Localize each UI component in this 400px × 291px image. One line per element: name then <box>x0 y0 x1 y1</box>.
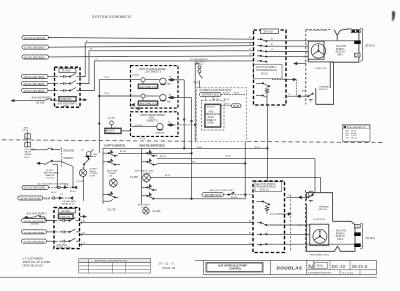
wire: pump2 control feed with contact <box>25 215 55 220</box>
label: AUX HYD PUMP CONT <box>210 189 234 192</box>
svg-text:29-21-0: 29-21-0 <box>352 264 368 269</box>
engrs toggle fourth <box>142 193 246 200</box>
svg-text:S1-25C: S1-25C <box>153 210 161 213</box>
svg-text:115 VAC GEN 3B BU: 115 VAC GEN 3B BU <box>24 56 45 59</box>
label: IF EMER AC & DC BUS CONT <box>200 89 232 92</box>
wire: switch out y157.6 <box>157 159 315 193</box>
wire: vertical x247 emer to y157 <box>244 142 246 195</box>
capt switch toggle lower <box>103 159 120 166</box>
wire: relay2 out A to motor2 <box>270 224 310 226</box>
label: S1-27B <box>108 209 116 212</box>
label: ENG'RS SWITCHES <box>140 143 165 147</box>
connector box J76 pump2 <box>354 224 360 228</box>
bus oval: 115 VAC GEN BUS pump2 phase C <box>22 239 47 244</box>
motor housing rectangle pump2 <box>310 224 329 245</box>
wire: battery to adg dashed link <box>206 97 214 101</box>
label: CKPT'S ANNUN PANEL 22-0 SHEET 2 <box>132 68 167 77</box>
svg-text:T2: T2 <box>288 94 290 96</box>
lamp: capt aux pump light <box>109 178 117 188</box>
svg-text:B2: B2 <box>90 49 92 51</box>
adg regulator inner box <box>205 104 222 128</box>
label: (29-40-0) <box>366 238 376 240</box>
bus oval: 115 VAC GEN GD BUS (row A) <box>22 185 49 189</box>
svg-text:22-0 SHEET 2: 22-0 SHEET 2 <box>145 71 162 74</box>
svg-text:B1-801: B1-801 <box>231 197 238 199</box>
svg-text:115 VAC A/C BUS 1B: 115 VAC A/C BUS 1B <box>24 37 45 40</box>
wire: phase C to motor 1 <box>270 51 308 53</box>
svg-text:REGULATOR: REGULATOR <box>206 113 220 116</box>
svg-text:THERMAL: THERMAL <box>319 206 330 209</box>
motor M0-1 circle <box>311 44 325 58</box>
label: SEE 24-25 <box>23 128 29 133</box>
svg-text:2-1: 2-1 <box>60 194 64 196</box>
ckpt annun panel 1 dashed box <box>131 66 179 109</box>
wire labels: misc tiny designators <box>83 36 305 245</box>
relay2 coil contacts <box>257 201 270 214</box>
wire: coil link <box>27 132 29 143</box>
svg-text:B1: B1 <box>249 232 251 234</box>
label box: 31-631 <box>59 68 76 72</box>
svg-text:13-78: 13-78 <box>104 77 109 79</box>
label: AUX PUMP 2 COND <box>138 204 151 209</box>
svg-text:B2-64: B2-64 <box>70 191 76 193</box>
wire: monitor output A riser <box>80 43 254 77</box>
svg-text:SHIPS 206, 227 & SUBS: SHIPS 206, 227 & SUBS <box>23 261 51 264</box>
bus oval: 115 VAC GEN BUS 2B <box>22 45 49 50</box>
wire: pump2 phase C line <box>80 243 255 246</box>
svg-text:29-21-04: 29-21-04 <box>336 52 346 54</box>
title block texts <box>308 264 368 275</box>
wire: to annun lamp row 1 <box>99 79 140 81</box>
bus oval: 115 VAC GEN BUS phase B (monitor feed) <box>22 81 49 86</box>
svg-text:96111: 96111 <box>317 266 324 268</box>
thermal switch contact pump2 <box>286 191 313 202</box>
label: B1-67 row B <box>45 198 51 200</box>
relay2 contact row C <box>257 244 270 246</box>
wire: box to panel2 <box>122 130 131 132</box>
relay contact row 1 <box>257 39 270 42</box>
label: THERMAL SWITCH (pump1) <box>319 85 330 91</box>
connector block J1 (half filled) <box>351 30 360 33</box>
title: SYSTEM SCHEMATIC <box>92 15 132 19</box>
svg-text:RELAY: RELAY <box>25 153 33 156</box>
svg-text:ON: ON <box>109 175 113 177</box>
lamp: engrs pump2 light <box>143 208 150 215</box>
label: S1-255 <box>130 176 138 179</box>
svg-text:B2-12: B2-12 <box>165 175 170 177</box>
svg-text:115 VAC GEN 3B(1B): 115 VAC GEN 3B(1B) <box>24 90 45 93</box>
svg-text:HANDLE: HANDLE <box>46 174 55 177</box>
arrow: capt switch feed left <box>86 155 97 157</box>
pump 1 enclosure outline <box>331 29 359 62</box>
engrs toggle upper <box>142 150 157 156</box>
wire: adg to 29-38 dashes <box>221 105 232 107</box>
relay2 contact row B <box>257 234 270 236</box>
wire: phase B bus to relay 29-3-10 <box>49 46 255 48</box>
svg-text:274: 274 <box>355 54 360 57</box>
svg-text:CHARGER: CHARGER <box>155 132 165 135</box>
svg-text:THERMAL: THERMAL <box>319 85 330 88</box>
svg-text:29-1, 21-0 R: 29-1, 21-0 R <box>342 273 354 275</box>
bus oval: 115 VAC AC BUS 1B <box>22 35 49 40</box>
legend box: AUX HYD PUMP 1 LOW PRESS <box>138 101 159 106</box>
svg-text:NORMAL: NORMAL <box>64 157 75 160</box>
legend box: AUX HYD PUMP 1 ON <box>138 84 158 89</box>
svg-text:29-3-10: 29-3-10 <box>264 30 274 34</box>
monitor caption: AUX HYD PUMP 1 MON <box>58 103 78 108</box>
svg-text:WIRE DIAGRAM LIST: WIRE DIAGRAM LIST <box>347 126 367 129</box>
svg-text:AT-44: AT-44 <box>225 103 231 106</box>
svg-text:B1-67: B1-67 <box>45 198 51 200</box>
label: CAPT'S SWITCH <box>104 143 125 147</box>
wire: oval B to monitor <box>48 83 58 85</box>
svg-text:S1-248: S1-248 <box>77 181 84 183</box>
svg-text:PUMP 2 MON: PUMP 2 MON <box>57 247 72 249</box>
svg-text:FUSE 15A: FUSE 15A <box>61 98 72 101</box>
wheel well boundary dashed (pump1) <box>305 30 307 105</box>
svg-text:AT-41: AT-41 <box>234 92 240 95</box>
svg-text:AUX HYD PUMP 2: AUX HYD PUMP 2 <box>27 212 48 215</box>
label: 29-21-0 / CODE 1B <box>159 261 176 270</box>
svg-text:RED: RED <box>167 84 172 86</box>
relay coil contacts lower <box>256 83 270 105</box>
monitor2 internal contacts B <box>59 229 80 234</box>
connector arrows row 3 <box>155 122 174 135</box>
solenoid circle (check valve) <box>81 150 98 168</box>
motor M0-2 circle <box>313 229 327 243</box>
engrs switch vertical <box>141 148 143 204</box>
wire: monitor output B riser <box>80 51 254 84</box>
svg-text:U.T CUSTOMERS: U.T CUSTOMERS <box>23 257 44 260</box>
wire: relay2 out B to block <box>270 233 310 235</box>
svg-text:AUX HYD PUMP CONT: AUX HYD PUMP CONT <box>210 189 234 192</box>
svg-text:A2: A2 <box>83 220 85 223</box>
release handle contact upper <box>30 148 60 150</box>
svg-text:MO-1: MO-1 <box>338 54 344 56</box>
svg-text:(2-66): (2-66) <box>208 123 214 125</box>
wire: handle down to sensing row <box>57 164 58 188</box>
wire: oval C to monitor <box>48 90 58 92</box>
transfer relay box 1 (29-3-10) dashed <box>254 30 287 105</box>
svg-text:A06: A06 <box>94 153 98 156</box>
svg-text:R2-61: R2-61 <box>262 72 269 75</box>
bus oval: 115 VAC GEN GD BUS (row B) <box>18 196 43 200</box>
svg-text:T2: T2 <box>288 195 290 197</box>
svg-text:SHEET 5: SHEET 5 <box>147 119 158 122</box>
svg-text:R2-6: R2-6 <box>25 157 31 159</box>
connector arrows row 1 <box>167 77 175 86</box>
svg-text:SWITCH: SWITCH <box>319 89 328 91</box>
label: AUX HYD PUMP 1 / B1-630 <box>32 96 53 104</box>
release handle mechanical dashed link <box>61 148 63 168</box>
svg-text:C2: C2 <box>95 59 97 61</box>
svg-text:CODE 1B: CODE 1B <box>162 266 176 270</box>
ckpt annun panel 2 dashed box <box>131 112 179 137</box>
svg-text:AUX HYD: AUX HYD <box>336 230 347 233</box>
svg-text:C1: C1 <box>249 243 251 245</box>
bus oval: BATTERY BUS <box>200 92 222 96</box>
label: 31-381 A/W RELEASE HANDLE (51-15) <box>44 170 59 180</box>
wire: dashed vertical thermal link pump1 <box>295 80 297 97</box>
relay contact row 3 <box>257 50 270 52</box>
monitor internal contacts phase A <box>60 74 81 79</box>
svg-text:115 VAC GEN 2B BU: 115 VAC GEN 2B BU <box>24 47 45 50</box>
bracket pump1 connectors <box>360 28 362 62</box>
label: AUX HYD PUMP 2 <box>27 212 48 225</box>
svg-text:BATTERY BUS: BATTERY BUS <box>205 194 222 197</box>
bus oval: 29-38 <box>232 104 242 108</box>
svg-text:31-631: 31-631 <box>62 69 71 73</box>
svg-text:1-4 MOTOR: 1-4 MOTOR <box>313 219 325 221</box>
wire: to annun lamp row 2 <box>99 95 140 97</box>
label: RELEASE / NORMAL <box>64 149 75 160</box>
legend box: AUX HYD PUMP 1+2 <box>105 128 122 134</box>
svg-text:115 VAC GEN 2B(3B): 115 VAC GEN 2B(3B) <box>24 83 45 86</box>
relay contact row 4 <box>257 55 270 57</box>
wire diagram reference table <box>343 125 371 142</box>
svg-text:MO-2: MO-2 <box>338 239 344 241</box>
label: FWD WHEEL WELL (bottom) <box>310 254 331 256</box>
wire: oval A to monitor <box>48 76 58 78</box>
connector 1-3-79 <box>108 117 116 128</box>
svg-text:ADG: ADG <box>209 110 214 113</box>
svg-text:FWD WHEEL WELL: FWD WHEEL WELL <box>310 254 331 256</box>
capt switch toggle upper <box>103 150 118 156</box>
svg-text:FUSE 15A: FUSE 15A <box>60 216 71 219</box>
label: AUX HYD PUMP 2 29-21-03 MO-2 <box>336 230 347 241</box>
drawing title box <box>206 263 263 273</box>
arrow: capt switch feed left 2 <box>37 162 44 164</box>
motor housing rectangle pump1 <box>308 41 333 62</box>
label: B1-801 <box>231 197 238 199</box>
current monitor assembly 31-631 dashed box <box>55 67 81 107</box>
rack boundary dashed (pump2) <box>290 195 292 251</box>
wire: vertical x320.6 down to pump2 enclosure <box>150 177 320 192</box>
label: S1-25C <box>153 210 161 213</box>
contact on battery bus 2 line <box>228 192 234 195</box>
label: B1-655 AT-41 <box>213 92 240 101</box>
wire: battery bus dashes <box>221 94 245 96</box>
connector diamonds panel1 bottom <box>132 104 140 110</box>
monitor internal contacts phase B <box>60 81 81 86</box>
svg-text:AUX HYD: AUX HYD <box>336 45 347 48</box>
label: AC GND SERV/GND SENSING <box>38 182 69 185</box>
note: UT CUSTOMERS <box>23 257 51 267</box>
svg-text:B1: B1 <box>249 43 251 45</box>
capt switch vertical <box>102 148 104 204</box>
arrow: relay2 aux contact out right <box>270 213 291 215</box>
wire: phase B to motor 1 <box>270 45 308 47</box>
svg-text:B1-655: B1-655 <box>223 93 230 95</box>
monitor2 inner fuse box <box>58 214 74 219</box>
svg-text:(29-40-3): (29-40-3) <box>365 45 375 47</box>
bus oval: 115 VAC GEN BUS pump2 phase B <box>22 230 47 235</box>
svg-text:SHEET 1: SHEET 1 <box>207 120 217 122</box>
current monitor assembly 31-634 dashed box <box>54 208 80 249</box>
svg-text:B2-11B: B2-11B <box>120 151 127 153</box>
label: THERMAL SWITCH (pump2) <box>319 206 330 212</box>
label: AUX PUMP 1 POWER (capt) <box>107 170 118 178</box>
annunciator row 3: lamp <box>131 123 164 130</box>
engrs toggle third <box>142 184 157 190</box>
bus oval: 115 VAC GEN BUS phase C (monitor feed) <box>22 88 49 93</box>
relay2 contact row A <box>257 222 270 226</box>
svg-text:1-3-79: 1-3-79 <box>108 117 116 120</box>
wire: phase A bus to relay 29-3-10 <box>49 38 255 40</box>
capt lower toggle <box>103 192 118 202</box>
svg-text:29 - 21 - 0: 29 - 21 - 0 <box>159 261 174 265</box>
svg-text:29-38: 29-38 <box>233 105 240 108</box>
svg-text:AUX PUMP 1 LOW: AUX PUMP 1 LOW <box>140 102 160 105</box>
thermal housing pump2 (tall column) <box>306 193 332 252</box>
connector block filled pump2 b <box>354 243 361 247</box>
engrs toggle second <box>142 159 157 166</box>
svg-text:AUX HYD PUMP 2: AUX HYD PUMP 2 <box>256 183 276 186</box>
wire: phase A to connector block <box>270 40 355 42</box>
svg-text:115 VAC GEN 1B(2B): 115 VAC GEN 1B(2B) <box>24 220 45 223</box>
svg-text:29-1 · 291-22: 29-1 · 291-22 <box>346 138 357 140</box>
arrow: monitor output right <box>81 99 87 101</box>
svg-text:2B-90LH: 2B-90LH <box>207 107 215 109</box>
svg-text:SYSTEM SCHEMATIC: SYSTEM SCHEMATIC <box>92 15 132 19</box>
svg-text:BATTERY BUS: BATTERY BUS <box>203 94 220 97</box>
svg-text:115 VAC GEN 3B(1B): 115 VAC GEN 3B(1B) <box>24 241 45 244</box>
svg-text:B3: B3 <box>271 44 273 46</box>
svg-text:29-21-03: 29-21-03 <box>336 236 346 238</box>
svg-text:SWITCH: SWITCH <box>319 209 328 211</box>
label: A CHECK VALVE CLOSED LIGHT <box>77 168 99 183</box>
wheel well boundary dashed (pump2) <box>305 190 307 252</box>
svg-text:B1-61: B1-61 <box>255 147 260 149</box>
check valve relay coil box (upper) <box>25 134 31 139</box>
svg-text:B1-64: B1-64 <box>226 156 231 158</box>
wire: vertical x73 release to sensing <box>61 161 74 188</box>
label: (29-40-3) <box>365 45 375 47</box>
wheel well top dashed line <box>306 29 331 31</box>
scan mark top right <box>392 11 395 21</box>
switch cluster top rail <box>103 147 268 149</box>
svg-text:N: N <box>308 264 313 271</box>
svg-text:S ELIMINATION REPORT: S ELIMINATION REPORT <box>308 272 332 275</box>
svg-text:APPROVAL & RELEASE RECORD: APPROVAL & RELEASE RECORD <box>95 260 128 263</box>
svg-text:A06: A06 <box>302 89 305 92</box>
svg-text:RELAY 29-10: RELAY 29-10 <box>62 202 75 205</box>
svg-text:MON: MON <box>63 106 69 108</box>
svg-text:RELEASE: RELEASE <box>64 149 75 152</box>
svg-text:S1-27B: S1-27B <box>108 209 116 212</box>
svg-text:VALVE: VALVE <box>25 151 32 154</box>
bus oval: 115 VAC GEN BUS phase A (monitor feed) <box>22 74 49 79</box>
wire: pump1 control feed with contact <box>12 99 58 102</box>
svg-text:C3: C3 <box>271 49 273 51</box>
lamp: check valve closed light <box>79 167 86 201</box>
pump 2 enclosure outline <box>306 221 355 251</box>
label: CKPD ANNUN PANEL 33-0 SHEET 5 <box>135 114 166 127</box>
svg-text:CONTROL: CONTROL <box>229 268 242 271</box>
annunciator row 2: diode, legend box, lamp <box>141 94 166 101</box>
svg-text:B2-11C: B2-11C <box>160 156 167 158</box>
svg-text:S-1C: S-1C <box>298 225 303 227</box>
title strip outline <box>195 260 376 274</box>
wire: lamp1 return vertical x184 <box>175 80 185 149</box>
svg-text:AUX PUMP 1 ON: AUX PUMP 1 ON <box>140 85 158 88</box>
label box: 31-634 <box>59 209 76 213</box>
svg-text:PUMP 2: PUMP 2 <box>336 233 345 235</box>
svg-text:LIGHT: LIGHT <box>90 176 97 178</box>
label: 1-4 MOTOR (pump1) <box>315 68 327 70</box>
wire: battery bus 2 dashes <box>224 194 254 196</box>
svg-text:115 VAC GEN 1B(2B): 115 VAC GEN 1B(2B) <box>24 76 45 79</box>
wire: oval B2 to monitor <box>47 231 58 233</box>
svg-text:PUMP 1-2: PUMP 1-2 <box>106 132 116 134</box>
svg-text:B2: B2 <box>83 232 85 234</box>
svg-text:A3: A3 <box>271 37 273 40</box>
wire: panel feed vertical x99 <box>99 80 101 153</box>
svg-text:(29-40-0): (29-40-0) <box>366 238 376 240</box>
svg-text:33-656: 33-656 <box>132 75 140 77</box>
svg-text:ENG'RS SWITCHES: ENG'RS SWITCHES <box>140 143 165 147</box>
label: FWD WHEEL WELL (top) <box>308 30 329 32</box>
svg-text:TRANSFER RELAY: TRANSFER RELAY <box>256 186 277 189</box>
thermal switch contact pump1 <box>286 93 313 102</box>
monitor2 internal contacts C <box>59 238 80 243</box>
svg-text:CAPT'S SWITCH: CAPT'S SWITCH <box>104 143 125 147</box>
check valve relay coil box (lower) <box>25 143 31 147</box>
wire: row A dashes and symbols <box>49 185 77 193</box>
monitor2 internal contacts A <box>59 218 80 223</box>
svg-text:A1: A1 <box>249 220 251 223</box>
svg-text:AT-45: AT-45 <box>224 98 230 101</box>
arrow: monitor2 output right <box>80 215 86 217</box>
bus oval: 115 VAC GEN BUS pump2 phase A <box>22 219 47 224</box>
wire: switch out y153 <box>118 153 192 155</box>
transfer relay box 2 (29-21-02) dashed <box>253 181 285 253</box>
label: 1-B GND SERV RELAY 29-10 <box>60 194 77 205</box>
svg-text:A2: A2 <box>86 40 88 43</box>
connector block filled <box>354 40 361 44</box>
connector block filled pump2 a <box>354 232 361 236</box>
svg-text:S1-255: S1-255 <box>130 176 138 179</box>
svg-text:C2: C2 <box>83 243 85 245</box>
emergency power dashed region <box>197 88 247 142</box>
thermal housing pump1 <box>316 62 334 104</box>
wire: lamp3 return dashed link <box>174 124 195 126</box>
label: AUX HYD PUMP 2 TRANSFER RELAY 29-21-02 <box>255 182 282 192</box>
svg-text:B2-6: B2-6 <box>192 161 196 163</box>
svg-text:115 VAC GEN GD BU: 115 VAC GEN GD BU <box>20 197 41 200</box>
label: AT-44 <box>225 103 231 106</box>
wire: neutral to motor 1 <box>270 56 308 58</box>
svg-text:B1-67: B1-67 <box>51 192 57 194</box>
svg-text:B1-630: B1-630 <box>37 102 45 105</box>
svg-text:1-4 MOTOR: 1-4 MOTOR <box>315 68 327 70</box>
wire: pump2 phase B line <box>80 233 255 236</box>
svg-text:D1: D1 <box>249 54 251 56</box>
wire: row B dashes and symbols <box>43 197 73 199</box>
wire: phase C bus to relay 29-3-10 <box>49 56 255 57</box>
wire: lamp2 return vertical x188.8 <box>175 98 192 200</box>
svg-text:FWD WHEEL WELL: FWD WHEEL WELL <box>308 30 329 32</box>
page bottom edge line <box>0 276 377 278</box>
release handle contact lower <box>44 160 61 165</box>
arrow: ground connector pump1 area <box>294 62 306 65</box>
connector box 274 <box>355 53 361 57</box>
svg-text:18-5B: 18-5B <box>197 147 203 149</box>
svg-text:115 VAC GEN 2B(3B): 115 VAC GEN 2B(3B) <box>24 231 45 234</box>
svg-text:(51-15): (51-15) <box>47 178 54 180</box>
adg regulator dashed box <box>202 100 225 130</box>
bus oval: BATTERY BUS 2 <box>202 193 224 197</box>
